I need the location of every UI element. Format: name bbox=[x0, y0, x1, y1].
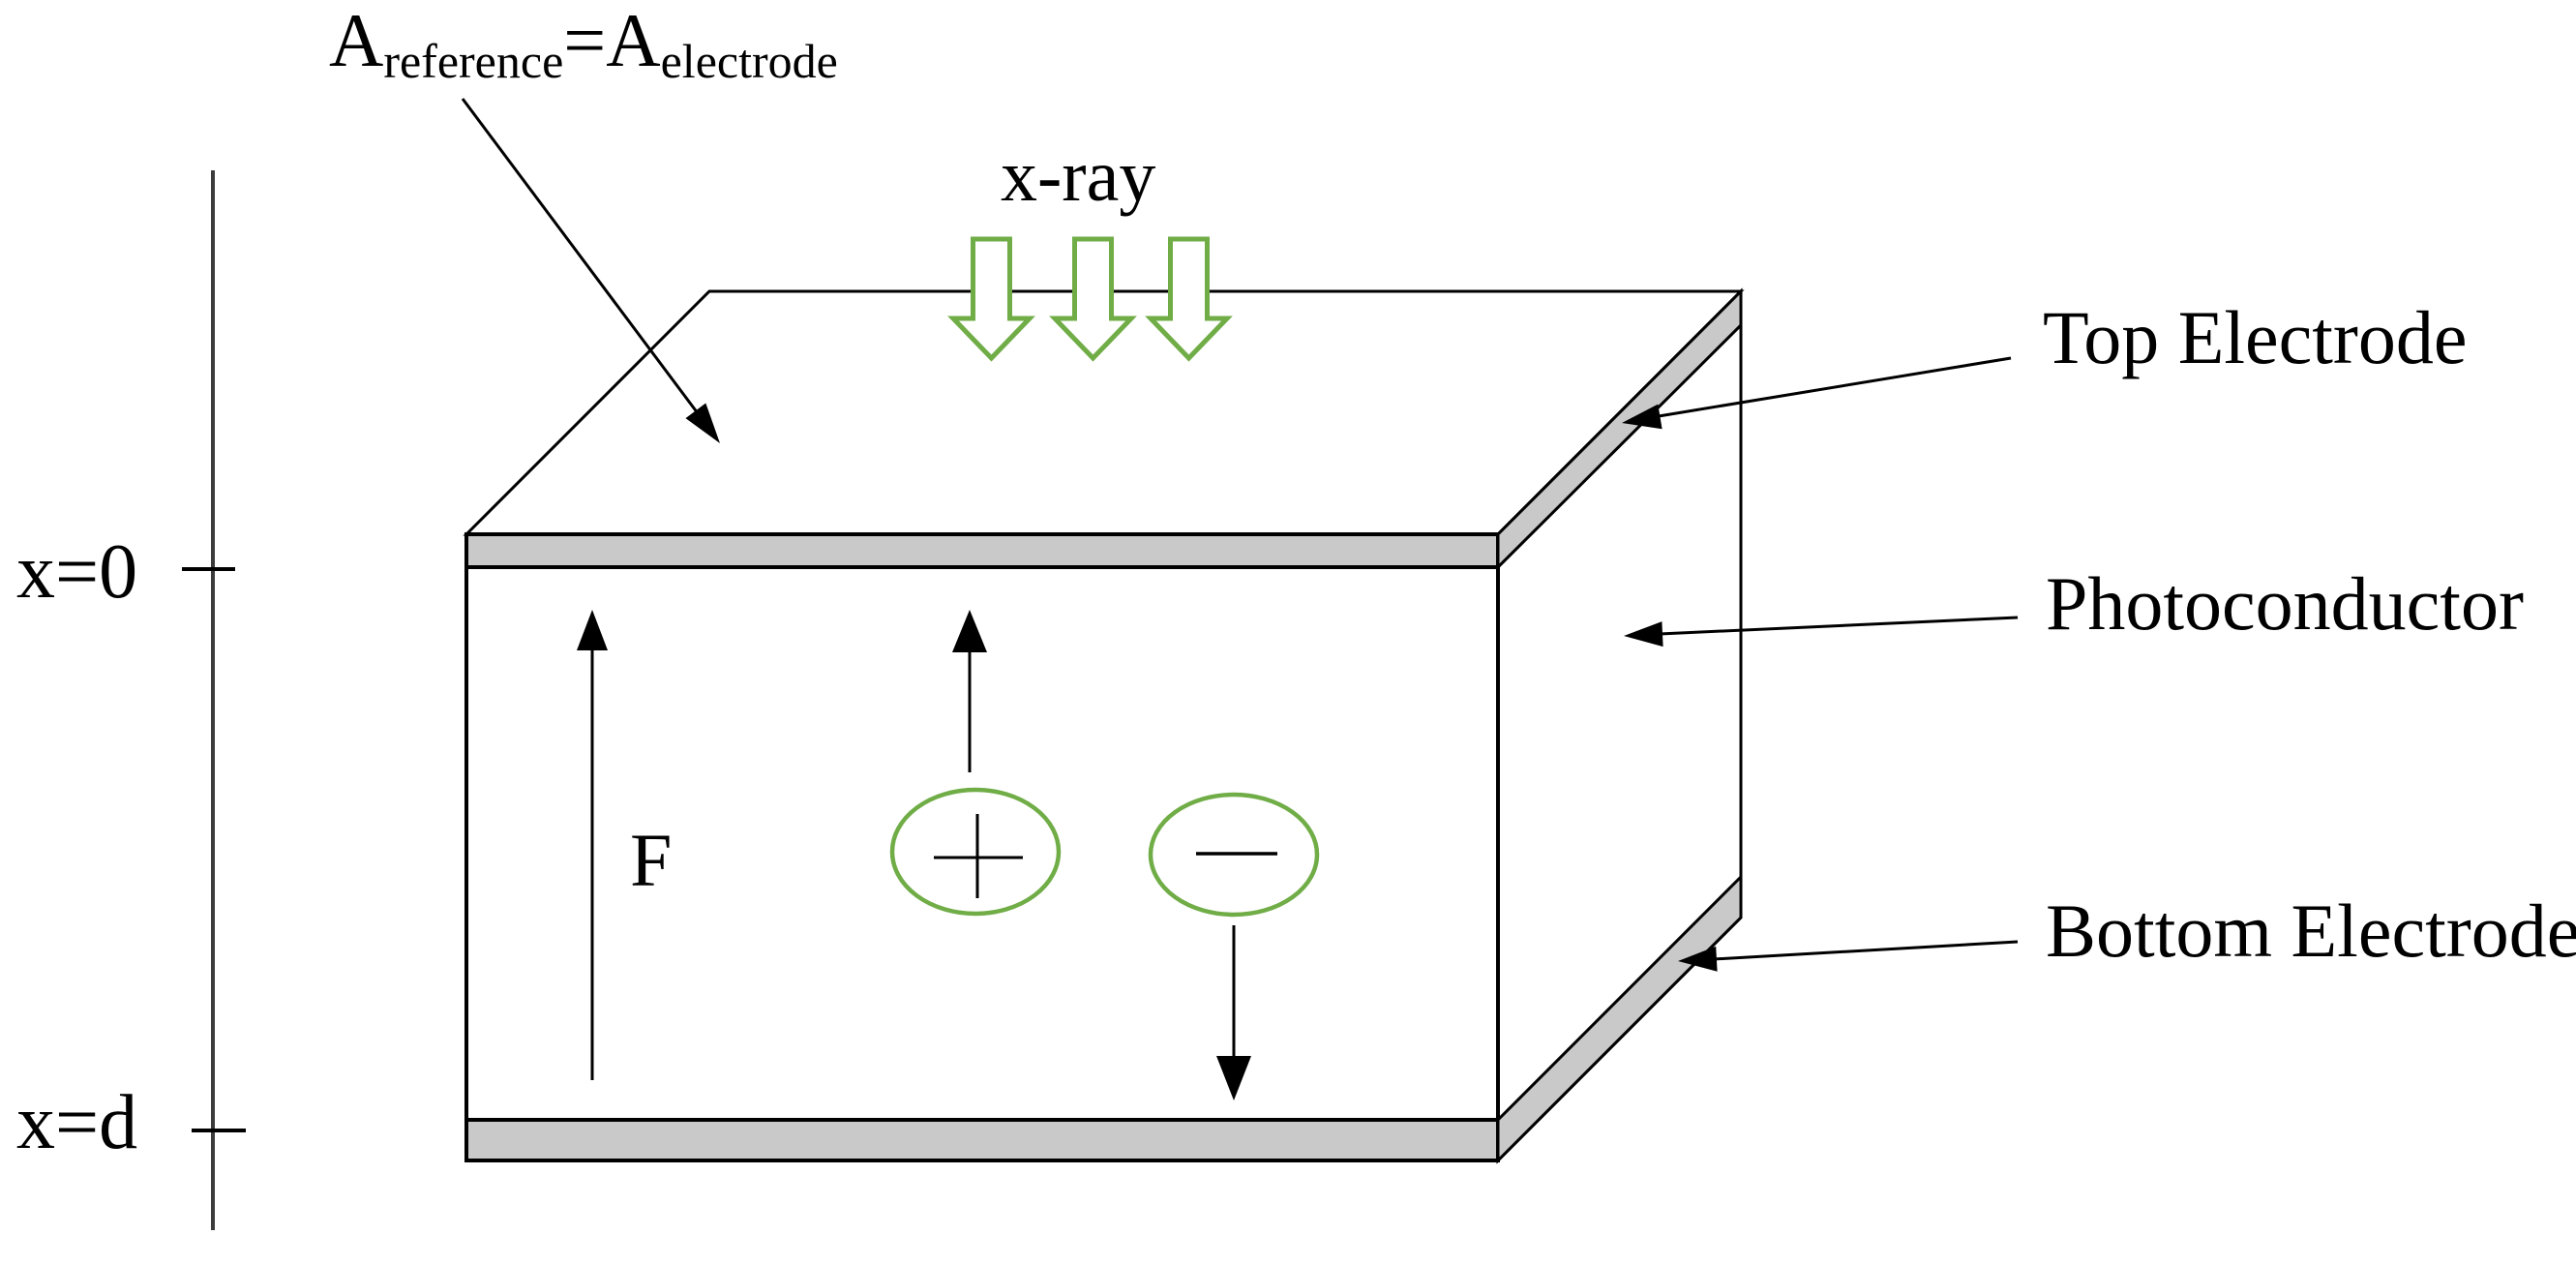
leader arrow to bottom electrode bbox=[1714, 942, 2018, 959]
svg-text:Bottom Electrode: Bottom Electrode bbox=[2046, 889, 2576, 973]
svg-text:Photoconductor: Photoconductor bbox=[2046, 561, 2524, 646]
photoconductor right side face bbox=[1498, 291, 1741, 1160]
svg-text:Top Electrode: Top Electrode bbox=[2043, 295, 2468, 379]
top electrode side strip bbox=[1498, 291, 1741, 567]
x-ray green arrow 3 bbox=[1151, 239, 1227, 358]
svg-text:x-ray: x-ray bbox=[1001, 136, 1155, 217]
bottom electrode front strip bbox=[466, 1120, 1498, 1160]
electron charge circle (-) bbox=[1151, 795, 1317, 915]
hole up arrow bbox=[969, 650, 972, 772]
x-ray green arrow 2 bbox=[1055, 239, 1131, 358]
bottom electrode side strip bbox=[1498, 877, 1741, 1160]
electron down arrow bbox=[1233, 925, 1236, 1058]
svg-text:x=0: x=0 bbox=[16, 529, 137, 615]
leader arrow to top electrode bbox=[1659, 358, 2011, 416]
leader arrow to photoconductor bbox=[1660, 617, 2018, 634]
svg-text:x=d: x=d bbox=[16, 1080, 137, 1165]
photoconductor top face bbox=[466, 291, 1741, 534]
field F arrow bbox=[591, 648, 594, 1080]
svg-text:F: F bbox=[630, 818, 672, 902]
top electrode front strip bbox=[466, 534, 1498, 567]
photoconductor front face bbox=[466, 534, 1498, 1160]
x axis vertical line bbox=[211, 170, 215, 1230]
x-ray green arrow 1 bbox=[953, 239, 1030, 358]
arrow from A label to top face bbox=[463, 99, 698, 413]
hole charge circle (+) bbox=[892, 790, 1059, 914]
tick x=0 bbox=[182, 567, 235, 571]
tick x=d bbox=[192, 1129, 246, 1132]
